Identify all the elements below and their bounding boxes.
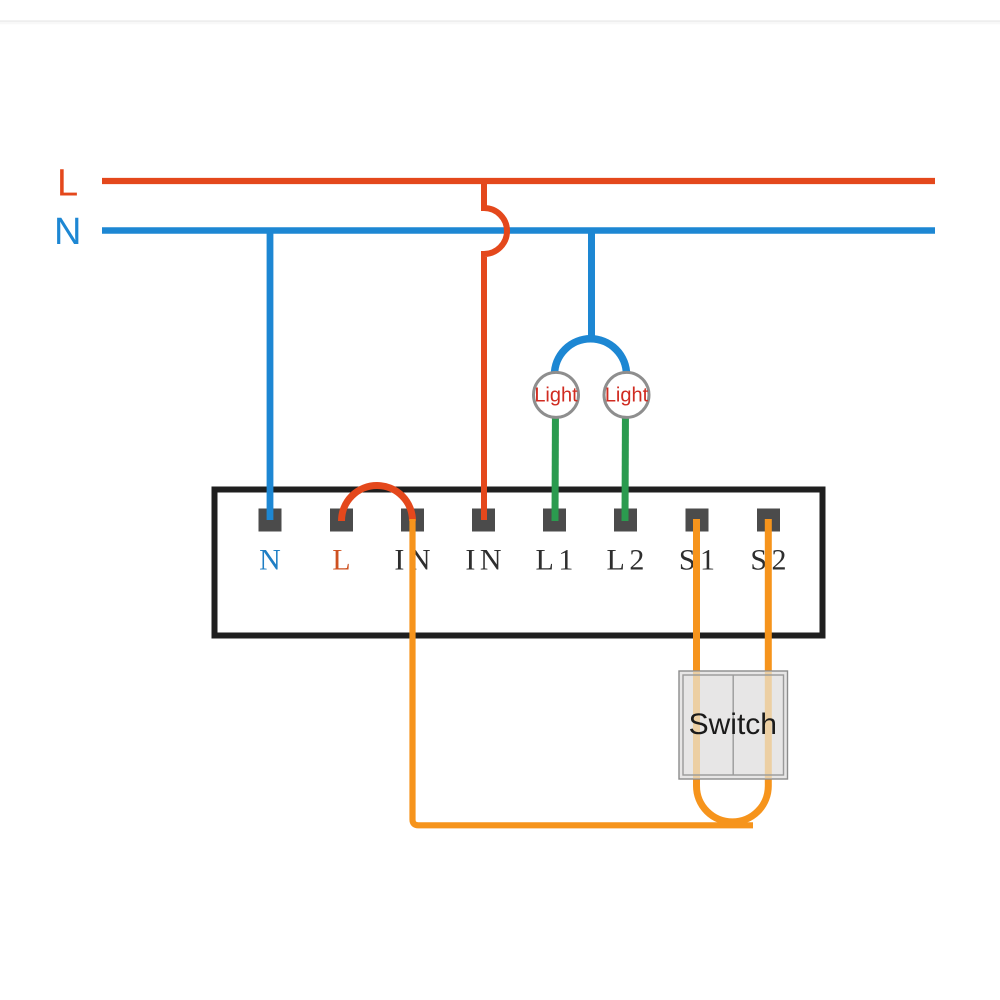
wire L line (live bus) [102, 178, 935, 184]
wire IN1 to switch common [413, 519, 754, 825]
svg-text:Switch: Switch [689, 708, 777, 741]
module box [215, 490, 823, 636]
wire jumper L to IN1 [342, 486, 413, 522]
terminal IN1 [401, 509, 424, 532]
svg-text:N: N [259, 544, 285, 577]
switch box [679, 671, 788, 779]
wire light2 to L2 [622, 404, 630, 521]
svg-text:IN: IN [465, 544, 506, 577]
wire light1 to L1 [552, 404, 560, 521]
wire S1 S2 switch loop [697, 519, 769, 822]
lamp Light2 [604, 372, 649, 417]
wire L drop to terminal IN with hop over N [484, 181, 507, 520]
lamp Light1 [534, 372, 579, 417]
svg-text:L: L [57, 163, 78, 205]
svg-text:N: N [54, 211, 81, 253]
terminal L [330, 509, 353, 532]
svg-text:L2: L2 [607, 544, 649, 577]
terminal L1 [543, 509, 566, 532]
terminal S1 [686, 509, 709, 532]
wire N line (neutral bus) [102, 227, 935, 234]
wire light arch [555, 339, 627, 375]
terminal S2 [757, 509, 780, 532]
terminal L2 [614, 509, 637, 532]
terminal IN2 [472, 509, 495, 532]
svg-text:Light: Light [534, 385, 578, 407]
svg-text:Light: Light [605, 385, 649, 407]
terminal N [259, 509, 282, 532]
wire N feed to lights [588, 231, 595, 340]
wire N drop to terminal N [267, 231, 274, 521]
svg-text:L1: L1 [536, 544, 578, 577]
page header divider [0, 20, 1000, 22]
svg-text:L: L [332, 544, 355, 577]
